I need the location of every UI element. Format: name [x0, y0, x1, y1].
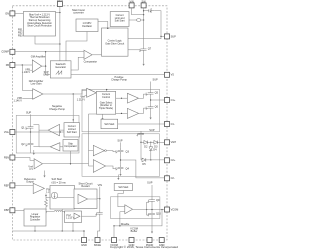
- junction U12/VIN rail: [99, 198, 100, 199]
- junction soft start feed: [73, 93, 74, 94]
- VCOM buffer enclosure: [111, 197, 160, 219]
- wire VGL to box: [31, 131, 65, 133]
- svg-text:C1-: C1-: [171, 122, 175, 126]
- pin VGH (right): [165, 140, 177, 145]
- svg-text:1.213 V: 1.213 V: [77, 98, 86, 101]
- junction AVIN/bias bottom: [59, 43, 60, 44]
- svg-text:Charge Pump: Charge Pump: [111, 78, 127, 82]
- wire Q2 source down: [30, 147, 32, 153]
- svg-text:Soft Start: Soft Start: [118, 186, 128, 189]
- driver amp T3: [93, 145, 106, 155]
- junction linreg rail: [34, 230, 35, 231]
- svg-text:SUP: SUP: [117, 139, 123, 143]
- diode D4: [149, 142, 157, 152]
- regulation comparator box: [63, 140, 78, 152]
- junction U6 out: [70, 163, 71, 164]
- svg-text:V IN: V IN: [98, 183, 103, 187]
- junction VCOM node b: [151, 209, 152, 210]
- VFB reference label: [22, 69, 31, 75]
- wire Q6 source down with ground: [150, 111, 152, 118]
- junction R1: [45, 195, 46, 196]
- junction VIN/SW: [143, 14, 144, 15]
- junction SUP: [160, 36, 161, 37]
- pin EN (left): [5, 11, 14, 16]
- svg-text:Gate Drive Circuit: Gate Drive Circuit: [105, 43, 124, 46]
- arrow (to reference): [43, 176, 45, 178]
- svg-text:GM Amplifier: GM Amplifier: [31, 55, 46, 59]
- svg-text:Q6: Q6: [155, 104, 159, 108]
- soft start label (delay): [52, 177, 67, 184]
- VREF label (U8): [77, 96, 86, 102]
- wire D5 to C2+: [146, 159, 165, 161]
- junction C1+: [150, 99, 151, 100]
- oscillator box: [76, 19, 98, 32]
- svg-text:Comparator: Comparator: [84, 60, 98, 64]
- svg-text:Q7: Q7: [148, 47, 152, 51]
- svg-text:Disable: Disable: [121, 222, 130, 226]
- driver amp U5: [48, 124, 59, 135]
- comparator U12: [78, 194, 88, 203]
- driver amp T2: [127, 108, 138, 118]
- wire Q1 to Q2: [30, 131, 32, 141]
- wire B9 to bottom rail: [61, 209, 63, 231]
- positive charge pump label: [111, 75, 127, 82]
- svg-text:C2+: C2+: [171, 158, 176, 162]
- transistor Q10: [148, 211, 162, 216]
- comparator U6 (FBN): [34, 159, 42, 169]
- wire Q8 to BASE pin: [98, 216, 100, 237]
- pin SW (top): [141, 0, 146, 8]
- svg-text:SUP: SUP: [153, 78, 159, 82]
- transistor Q9: [148, 198, 160, 203]
- wire box down arrow: [102, 114, 104, 118]
- wire box to T2: [116, 112, 128, 114]
- transistor Q12 (doubler feed): [137, 131, 144, 137]
- op amp U13 with reference: [65, 211, 82, 223]
- junction COMP/gm out: [45, 51, 46, 52]
- gm amplifier U3: [31, 55, 46, 73]
- svg-text:SUP: SUP: [149, 128, 155, 132]
- junction T2 input: [121, 113, 122, 114]
- wire disable arrow: [117, 175, 119, 179]
- wire VS line: [46, 66, 165, 75]
- wire vfb2 stub: [22, 98, 32, 100]
- node BUF label: [43, 71, 49, 77]
- pin AVIN (top): [57, 0, 63, 7]
- svg-text:0 V: 0 V: [29, 168, 33, 171]
- wire enclosure stub to box: [106, 89, 108, 91]
- pin C1- (right): [165, 122, 175, 127]
- wire U13 ground: [72, 223, 74, 232]
- wire Q4 source down with ground: [120, 171, 122, 174]
- svg-text:Q10: Q10: [156, 212, 161, 216]
- pin PGND (bottom 5): [146, 238, 154, 248]
- svg-text:VGH: VGH: [171, 140, 177, 144]
- junction VGL/box: [60, 131, 61, 132]
- pin C1+ (right): [165, 98, 176, 103]
- pin VCOM (bottom 3): [110, 238, 118, 248]
- svg-text:BASE: BASE: [94, 243, 101, 247]
- negative charge pump enclosure: [16, 115, 79, 153]
- wire FBN to comparator: [15, 158, 34, 161]
- wire COMP to comparator: [15, 51, 84, 53]
- pin GND (bottom 6): [159, 238, 165, 248]
- wire FB down to low gain amp: [22, 65, 32, 90]
- junction control logic top: [107, 28, 108, 29]
- inductor L1: [54, 210, 63, 211]
- wire U13 out to Q8: [82, 215, 97, 217]
- svg-text:VGL: VGL: [4, 130, 10, 134]
- wire Q10 down to PGND: [151, 217, 153, 232]
- transistor Q8 (base driver): [95, 211, 102, 217]
- svg-text:SUP: SUP: [171, 34, 177, 38]
- svg-text:Controller: Controller: [30, 218, 41, 221]
- wire bottom rail: [12, 231, 84, 238]
- VFB reference label 2: [14, 97, 23, 103]
- svg-text:Soft Start: Soft Start: [52, 177, 63, 181]
- junction VCOM node a: [146, 209, 147, 210]
- pin BASE (bottom 2): [94, 238, 101, 248]
- wire Q7 source to ground: [143, 53, 145, 64]
- pin REF (left): [4, 183, 15, 188]
- pin COMP (left): [1, 49, 15, 54]
- wire SUP to Q1: [30, 114, 32, 124]
- svg-text:Q3: Q3: [126, 149, 130, 153]
- wire vref node down: [45, 194, 47, 196]
- wire Q9 to Q10: [151, 203, 153, 211]
- svg-text:1.146 V: 1.146 V: [22, 71, 31, 74]
- svg-text:converter: converter: [73, 11, 84, 15]
- wire U7 to gate rail: [39, 146, 50, 148]
- junction AVIN/bias: [59, 12, 60, 13]
- wire arrow above U6: [33, 150, 35, 153]
- negative charge pump label: [49, 104, 65, 111]
- current limit box: [110, 12, 129, 27]
- transistor Q2: [21, 141, 33, 148]
- pin VS (right): [165, 72, 175, 77]
- junction gm out: [45, 65, 46, 66]
- wire U6 out: [43, 163, 89, 165]
- wire VCOM node to pin: [147, 209, 165, 211]
- wire SUP to Q3: [120, 142, 122, 147]
- pin SUP (right): [165, 34, 177, 39]
- arrow (U6 top): [33, 153, 35, 155]
- short circuit restart label: [78, 181, 92, 188]
- resistor R1: [45, 196, 48, 211]
- svg-text:Short Circuit Protection: Short Circuit Protection: [27, 25, 52, 28]
- wire osc to sawtooth: [66, 32, 87, 61]
- wire REF pin to buffer: [15, 184, 33, 186]
- pin GND (bottom 1): [81, 238, 87, 248]
- positive charge pump enclosure upper: [82, 89, 160, 132]
- junction vcom pin bottom: [113, 225, 114, 226]
- wire VGL pin to node: [15, 131, 31, 133]
- short circuit restart box B10: [74, 189, 97, 209]
- wire sense to SW rail: [141, 19, 144, 21]
- junction bottom rail: [83, 230, 84, 231]
- wire AVIN rail: [59, 7, 61, 61]
- sawtooth generator box: [50, 61, 71, 78]
- junction D5/D4: [150, 159, 151, 160]
- svg-text:VIN: VIN: [129, 0, 133, 3]
- wire control logic to SUP corner: [128, 36, 161, 38]
- current control box: [96, 91, 115, 114]
- wire vref stub U8: [85, 95, 86, 97]
- wire low gain amp out: [43, 90, 87, 94]
- VREF label (U6): [28, 165, 33, 171]
- junction D2/D3/D4: [150, 142, 151, 143]
- wire U5 to gates: [33, 125, 48, 147]
- svg-text:1.146 V: 1.146 V: [14, 99, 23, 102]
- pin VGL (left): [4, 130, 15, 135]
- wire FBP to linreg: [15, 209, 24, 211]
- svg-text:EN: EN: [5, 11, 9, 15]
- svg-text:REF: REF: [4, 183, 10, 187]
- junction Q3/Q4: [120, 159, 121, 160]
- transistor Q4: [116, 165, 129, 172]
- diode D2: [141, 141, 148, 149]
- wire U14 out to gates: [133, 202, 149, 215]
- wire VIN rail down to Q8: [99, 187, 101, 211]
- junction at box top: [73, 119, 74, 120]
- wire control logic to Q7 gate: [128, 49, 140, 51]
- wire SUP to Q5: [150, 82, 152, 91]
- ground arrow (Q7): [143, 64, 145, 66]
- wire down arrow to reference: [44, 171, 46, 176]
- svg-text:Copyright © 2016, Texas Instru: Copyright © 2016, Texas Instruments Inco…: [110, 245, 178, 249]
- junction feedback: [119, 225, 120, 226]
- wire soft start to C1-: [118, 123, 165, 125]
- svg-text:D2: D2: [144, 145, 148, 149]
- wire node to C1+: [151, 99, 165, 101]
- main boost converter label: [72, 8, 85, 15]
- svg-text:Q2: Q2: [21, 142, 25, 146]
- wire box to T1: [116, 97, 128, 99]
- svg-text:Low Gain: Low Gain: [31, 82, 42, 86]
- driver amp U7: [50, 143, 60, 151]
- op amp U14 (vcom buffer): [125, 205, 133, 214]
- arrow (soft start): [101, 118, 103, 120]
- wire U12 out: [88, 198, 100, 200]
- wire Q5 to Q6: [150, 97, 152, 104]
- svg-text:D5: D5: [142, 162, 146, 166]
- ground (R1): [45, 212, 47, 214]
- ground arrow (Q6): [150, 118, 152, 120]
- svg-text:Oscillator: Oscillator: [82, 25, 92, 28]
- VIN rail: [132, 8, 144, 15]
- wire comparator out: [92, 54, 101, 56]
- svg-text:AVIN: AVIN: [57, 0, 63, 2]
- control logic box: [102, 28, 129, 56]
- svg-text:Buffer: Buffer: [131, 229, 138, 233]
- svg-text:FBP: FBP: [4, 208, 9, 212]
- pin FB (left): [6, 63, 15, 68]
- current limited soft start box: [64, 123, 80, 137]
- svg-text:Q4: Q4: [126, 166, 130, 170]
- wire T1 to Q5 gate: [139, 94, 147, 98]
- junction stub: [106, 89, 107, 90]
- svg-text:Output: Output: [26, 180, 34, 184]
- svg-text:GND: GND: [81, 243, 87, 247]
- delay box B9: [50, 186, 75, 210]
- wire vfb into gm: [30, 69, 32, 71]
- wire gm node vertical: [45, 52, 47, 66]
- comparator U2: [84, 50, 98, 64]
- wire T3 to Q3 gate: [106, 151, 116, 152]
- reference output buffer U11: [24, 177, 44, 194]
- svg-text:Control: Control: [102, 96, 110, 99]
- wire SUP to Q9: [151, 185, 153, 198]
- wire linreg to U13: [46, 212, 65, 214]
- svg-text:Tripler Mode): Tripler Mode): [99, 107, 113, 110]
- wire box to U5: [60, 129, 65, 131]
- IC boundary dashed outline: [12, 6, 167, 240]
- wire sawtooth to comparator: [71, 57, 84, 70]
- svg-text:Q1: Q1: [21, 125, 25, 129]
- svg-text:SUP: SUP: [147, 181, 153, 185]
- wire box to U7: [60, 146, 63, 148]
- wire linreg ground: [34, 226, 36, 231]
- svg-text:Soft Start: Soft Start: [104, 123, 114, 126]
- pin VCOM (right): [165, 207, 179, 212]
- pin FBN (left): [4, 155, 15, 160]
- svg-text:FB: FB: [6, 63, 10, 67]
- svg-text:SUP: SUP: [26, 111, 32, 115]
- svg-text:Restart: Restart: [81, 184, 90, 188]
- pin C2- (right): [165, 176, 175, 181]
- wire bias block bottom stub: [35, 36, 60, 44]
- wire VCOM bottom pin up: [113, 226, 115, 238]
- linear regulator controller box: [24, 209, 46, 226]
- wire osc to control logic: [98, 22, 108, 29]
- junction U13 rail: [72, 230, 73, 231]
- soft start box (pos pump): [101, 119, 118, 129]
- svg-text:1.213 V: 1.213 V: [66, 217, 75, 220]
- wire Q11 to SUP pin: [154, 11, 164, 37]
- junction VGL: [30, 131, 31, 132]
- svg-text:Comparator: Comparator: [64, 145, 77, 148]
- positive charge pump enclosure lower: [82, 134, 160, 177]
- pin GND (bottom 4): [129, 238, 135, 248]
- wire current source rail: [46, 197, 78, 199]
- junction B9 rail: [62, 230, 63, 231]
- current sense S1: [137, 19, 141, 22]
- wire control rail to T3/T4: [89, 114, 97, 166]
- VREF label (U11): [46, 188, 55, 194]
- junction VCOM pin: [161, 209, 162, 210]
- svg-text:Q9: Q9: [156, 198, 160, 202]
- wire gm out to node: [42, 65, 46, 67]
- wire D4 to D5 row: [150, 152, 152, 160]
- soft start box (vcom): [114, 184, 132, 191]
- wire U6 branch to skip comparator: [70, 151, 72, 164]
- wire sense from current limit: [129, 19, 137, 21]
- transistor Q7 (main switch): [139, 46, 152, 53]
- transistor Q1: [21, 124, 33, 131]
- svg-text:Generator: Generator: [55, 66, 66, 69]
- svg-text:D4: D4: [153, 147, 157, 151]
- junction T1 input: [121, 98, 122, 99]
- pin FBP (left): [4, 208, 15, 213]
- diode D5: [141, 158, 146, 166]
- junction SW/Q11: [143, 10, 144, 11]
- wire vcom feedback: [114, 210, 162, 226]
- gm amplifier low gain U4: [29, 79, 44, 99]
- svg-text:SW: SW: [142, 0, 147, 3]
- VCOM buffer label: [130, 227, 138, 234]
- wire T4 to Q4 gate: [106, 166, 117, 169]
- pin C2+ (right): [165, 158, 176, 163]
- wire T2 to Q6 gate: [139, 108, 147, 113]
- wire node to C2- drop: [121, 160, 165, 178]
- wire feed to current limited soft start: [72, 94, 74, 123]
- svg-text:Soft Start: Soft Start: [67, 131, 77, 134]
- bias block U1: [23, 12, 55, 37]
- wire doubler rail: [140, 137, 142, 160]
- junction rail/D2: [140, 142, 141, 143]
- svg-text:Soft Start: Soft Start: [115, 20, 125, 23]
- arrow (disable in): [117, 178, 119, 180]
- transistor Q3: [116, 148, 129, 155]
- svg-text:VS: VS: [171, 73, 175, 77]
- svg-text:t SS = 20 ms: t SS = 20 ms: [52, 181, 67, 185]
- svg-text:VCOM: VCOM: [171, 207, 179, 211]
- transistor Q5: [146, 90, 158, 97]
- svg-text:Q5: Q5: [155, 90, 159, 94]
- transistor Q11 (isolation): [144, 8, 155, 13]
- wire Q3 to Q4: [120, 154, 122, 164]
- diode D3: [148, 141, 165, 149]
- svg-text:C1+: C1+: [171, 98, 176, 102]
- svg-text:C2-: C2-: [171, 176, 175, 180]
- wire AVIN branch to bias block: [56, 12, 60, 14]
- wire EN to bias block: [15, 12, 24, 14]
- svg-text:FBN: FBN: [4, 155, 9, 159]
- ground arrow (Q4): [119, 174, 121, 176]
- junction sense: [143, 19, 144, 20]
- wire soft start to amp: [118, 191, 125, 207]
- transistor Q6: [146, 104, 158, 111]
- svg-text:COMP: COMP: [1, 50, 9, 54]
- junction FB: [22, 64, 23, 65]
- comparator U8: [87, 88, 97, 97]
- SW rail: [143, 8, 145, 46]
- ground arrow (Q10): [151, 232, 153, 234]
- current source I1: [51, 192, 57, 198]
- svg-text:FB3: FB3: [18, 33, 23, 37]
- driver amp T1: [127, 93, 138, 103]
- svg-text:Charge Pump: Charge Pump: [49, 107, 65, 111]
- wire FB pin to gm: [15, 64, 32, 66]
- pin VIN (top): [129, 0, 134, 8]
- driver amp T4: [93, 160, 105, 173]
